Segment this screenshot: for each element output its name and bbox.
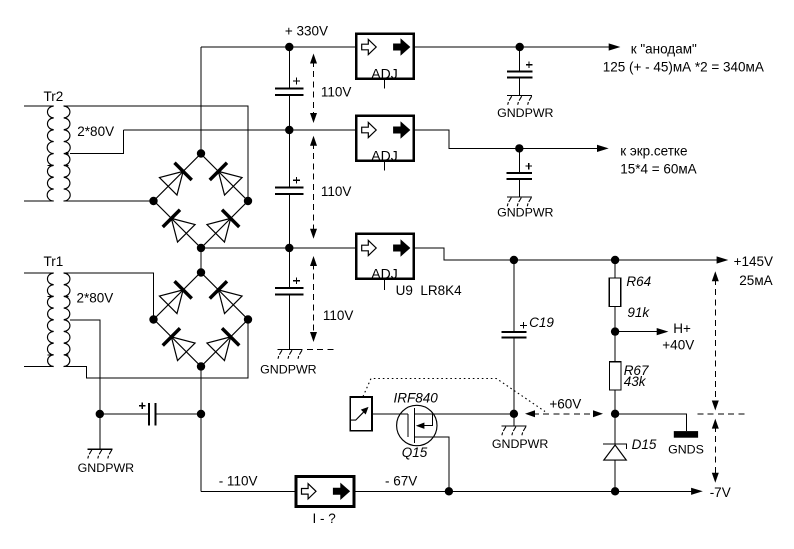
svg-text:25мА: 25мА (739, 273, 772, 288)
svg-text:GNDPWR: GNDPWR (260, 363, 316, 377)
capacitor C19 wire top (513, 260, 515, 332)
wire Tr1 center tap down to ground cap junction (70, 320, 100, 414)
svg-text:к экр.сетке: к экр.сетке (620, 144, 687, 159)
wire H+ arrow line (615, 331, 657, 333)
arrow +145V (717, 256, 729, 263)
capacitor C-neg polarity + (139, 402, 146, 409)
transistor Q15 source wire (414, 437, 449, 491)
ground GNDS bar (674, 431, 698, 438)
capacitor C-neg plates (149, 403, 156, 426)
node B2 right (244, 315, 252, 323)
resistor R67 stem bottom (614, 390, 616, 414)
regulator U9 ADJ pin (384, 280, 386, 290)
regulator shunt box (350, 397, 372, 431)
transistor Q15 circle (397, 405, 437, 445)
dashed measure arrow +145V to GNDS level (712, 271, 719, 410)
node B2 left (149, 315, 157, 323)
regulator U-a arrows (362, 39, 410, 54)
svg-text:125 (+ - 45)мА *2 = 340мА: 125 (+ - 45)мА *2 = 340мА (603, 59, 764, 74)
svg-text:C19: C19 (529, 315, 554, 330)
dotted feedback line (363, 379, 545, 412)
wire B1 bottom to B2 top (200, 248, 202, 273)
wire U-b output with step (415, 130, 600, 148)
svg-text:к "анодам": к "анодам" (631, 42, 697, 57)
svg-text:D15: D15 (632, 437, 657, 452)
wire junction to GNDS (615, 414, 686, 431)
Tr2 winding tick marks (47, 164, 68, 166)
svg-text:+40V: +40V (662, 337, 694, 352)
wire rail 3 from bridges (201, 247, 355, 249)
wire Tr2 secondary bottom to bridge B1 left node (64, 200, 154, 202)
wire -67V rail (354, 490, 694, 492)
regulator U-b block (356, 116, 414, 161)
wire U9 output with step to +145V (415, 248, 717, 260)
wire Tr1 secondary bottom to bridge B2 right node (64, 320, 248, 379)
dashed measure arrow 110V rail2-rail3 (310, 136, 317, 239)
bridge rectifier B1 diode D-bottomright (192, 192, 257, 257)
node C19 junction (510, 256, 518, 264)
node R64 top junction (611, 256, 619, 264)
bridge rectifier B1 diode D-topright (192, 145, 257, 210)
capacitor C-b plates (275, 188, 303, 194)
resistor R64 body (609, 278, 621, 307)
dashed measure arrow 110V rail3-gnd (310, 256, 317, 342)
svg-text:110V: 110V (323, 308, 354, 323)
transformer Tr2 primary winding (24, 106, 54, 201)
node B2 top (197, 268, 205, 276)
capacitor C-c polarity + (293, 278, 300, 285)
svg-text:IRF840: IRF840 (394, 390, 439, 405)
wire Tr2 secondary top to bridge B1 right node (64, 106, 248, 201)
resistor R67 body (610, 362, 622, 390)
wire filter capacitor column (288, 47, 290, 350)
dashed measure arrow 110V rail1-rail2 (310, 54, 317, 124)
node cap left junction (96, 410, 104, 418)
svg-text:ADJ: ADJ (371, 147, 397, 163)
ground stem under C19 junction (513, 414, 515, 426)
svg-text:91k: 91k (627, 305, 650, 320)
transistor Q15 channel plate (413, 408, 415, 443)
svg-text:H+: H+ (673, 321, 691, 336)
svg-text:+ 330V: + 330V (285, 23, 328, 38)
node B1 bottom (197, 244, 205, 252)
node B2 bottom (197, 362, 205, 370)
node rail3 cap junction (285, 244, 293, 252)
bridge rectifier B2 diode D-bottomleft (145, 310, 210, 375)
svg-text:I - ?: I - ? (313, 511, 336, 526)
svg-text:110V: 110V (321, 85, 352, 100)
svg-text:15*4 = 60мА: 15*4 = 60мА (620, 162, 696, 177)
node B1 left (149, 197, 157, 205)
diode D15 zener bar (603, 444, 627, 449)
node H+ junction (611, 327, 619, 335)
wire shunt box to gate (373, 413, 408, 415)
ground GNDPWR row2 (507, 197, 532, 206)
regulator U-a ADJ pin (384, 80, 386, 89)
resistor R64 stem top (614, 260, 616, 278)
svg-text:GNDPWR: GNDPWR (492, 437, 548, 451)
wire Tr1 secondary top to bridge B2 left node (64, 273, 154, 320)
capacitor C19 polarity + (520, 322, 527, 329)
svg-text:43k: 43k (624, 374, 647, 389)
svg-text:Q15: Q15 (402, 445, 428, 460)
wire B2 bottom down to -110V rail (200, 367, 202, 492)
dashed measure arrow GNDS level to -7V (712, 419, 719, 483)
wire -110V rail to regulator I (201, 490, 296, 492)
wire B1 top node up to +330V rail (200, 47, 202, 154)
svg-text:+145V: +145V (734, 254, 773, 269)
node B1 right (244, 197, 252, 205)
node Tr2 center tap dot (65, 152, 68, 155)
svg-text:U9 LR8K4: U9 LR8K4 (396, 283, 463, 298)
ground GNDPWR left (87, 449, 112, 458)
resistor R64 stem bottom (614, 307, 616, 332)
capacitor with ground row1 (507, 47, 532, 96)
bridge rectifier B2 diode D-bottomright (192, 310, 257, 375)
regulator U-b arrows (362, 122, 410, 137)
wire +330V rail 1 (201, 46, 355, 48)
node rail2 cap junction (285, 126, 293, 134)
diode D15 stem bottom (614, 460, 616, 491)
regulator U9 block (356, 234, 414, 279)
dashed reference line at GNDS level (698, 413, 747, 415)
svg-text:GNDPWR: GNDPWR (78, 461, 134, 475)
ground stem left (99, 414, 101, 449)
svg-text:-7V: -7V (710, 485, 731, 500)
svg-text:ADJ: ADJ (371, 65, 397, 81)
node cap right junction (197, 410, 205, 418)
arrow to anodes (609, 43, 621, 50)
node divider junction (611, 410, 619, 418)
arrow H+ (657, 328, 669, 335)
svg-text:GNDS: GNDS (668, 443, 704, 457)
regulator I-? arrows (302, 484, 350, 499)
svg-text:GNDPWR: GNDPWR (497, 106, 553, 120)
arrow to screen grid (597, 145, 609, 152)
wire U-a output (415, 46, 612, 48)
svg-text:Tr1: Tr1 (44, 254, 64, 269)
regulator U-b ADJ pin (384, 162, 386, 171)
svg-text:110V: 110V (321, 184, 352, 199)
bridge rectifier B2 diode D-topright (192, 263, 257, 328)
svg-text:ADJ: ADJ (371, 265, 397, 281)
wire Tr2 center tap to 110V rail 2 (70, 130, 124, 154)
node -67V MOSFET source junction (445, 487, 453, 495)
bridge rectifier B2 diode D-topleft (145, 263, 210, 328)
node B1 top (197, 149, 205, 157)
node output cap junction row2 (515, 144, 523, 152)
node C19 bottom junction (510, 410, 518, 418)
node output cap junction row1 (516, 43, 524, 51)
ground GNDPWR under cap column (278, 350, 303, 359)
regulator U9 arrows (362, 240, 410, 255)
wire 110V rail 2 (124, 129, 355, 131)
regulator I-? block (296, 477, 354, 507)
dashed arrow +60V (525, 410, 603, 417)
transistor Q15 gate plate (407, 414, 409, 437)
capacitor C-b polarity + (293, 177, 300, 184)
capacitor C19 plates (501, 332, 526, 337)
ground GNDPWR under C19 (501, 426, 526, 435)
transistor Q15 substrate arrow (424, 414, 433, 426)
transistor Q15 drain wire (414, 413, 514, 415)
svg-text:2*80V: 2*80V (77, 291, 114, 306)
regulator U-a block (356, 34, 414, 79)
node -67V D15 junction (611, 487, 619, 495)
bridge rectifier B1 diode D-bottomleft (145, 192, 210, 257)
node rail1 cap junction (285, 43, 293, 51)
svg-text:2*80V: 2*80V (77, 124, 114, 139)
arrow -7V (691, 488, 703, 495)
wire junction to D15 (614, 414, 616, 444)
capacitor C-c plates (275, 288, 303, 294)
diode D15 triangle (604, 445, 627, 460)
capacitor C-a polarity + (293, 78, 300, 85)
svg-text:+60V: +60V (549, 396, 581, 411)
dashed reference level segment (307, 348, 334, 350)
wire -110V cap line (100, 413, 201, 415)
svg-text:- 67V: - 67V (385, 473, 417, 488)
capacitor C-a plates (275, 88, 303, 94)
bridge rectifier B1 diode D-topleft (145, 145, 210, 210)
ground GNDPWR row1 (507, 96, 532, 105)
transformer Tr1 primary winding (24, 273, 54, 367)
Tr1 winding tick marks (47, 296, 68, 354)
shunt box arrow (350, 412, 363, 420)
transformer Tr2 secondary winding (64, 106, 71, 201)
svg-text:R64: R64 (626, 274, 651, 289)
capacitor C19 wire bottom (513, 338, 515, 414)
svg-text:Tr2: Tr2 (44, 89, 64, 104)
svg-text:- 110V: - 110V (219, 473, 258, 488)
svg-text:GNDPWR: GNDPWR (497, 206, 553, 220)
resistor R67 stem top (614, 332, 616, 362)
transformer Tr1 secondary winding (64, 273, 70, 367)
capacitor with ground row2 (507, 148, 532, 197)
